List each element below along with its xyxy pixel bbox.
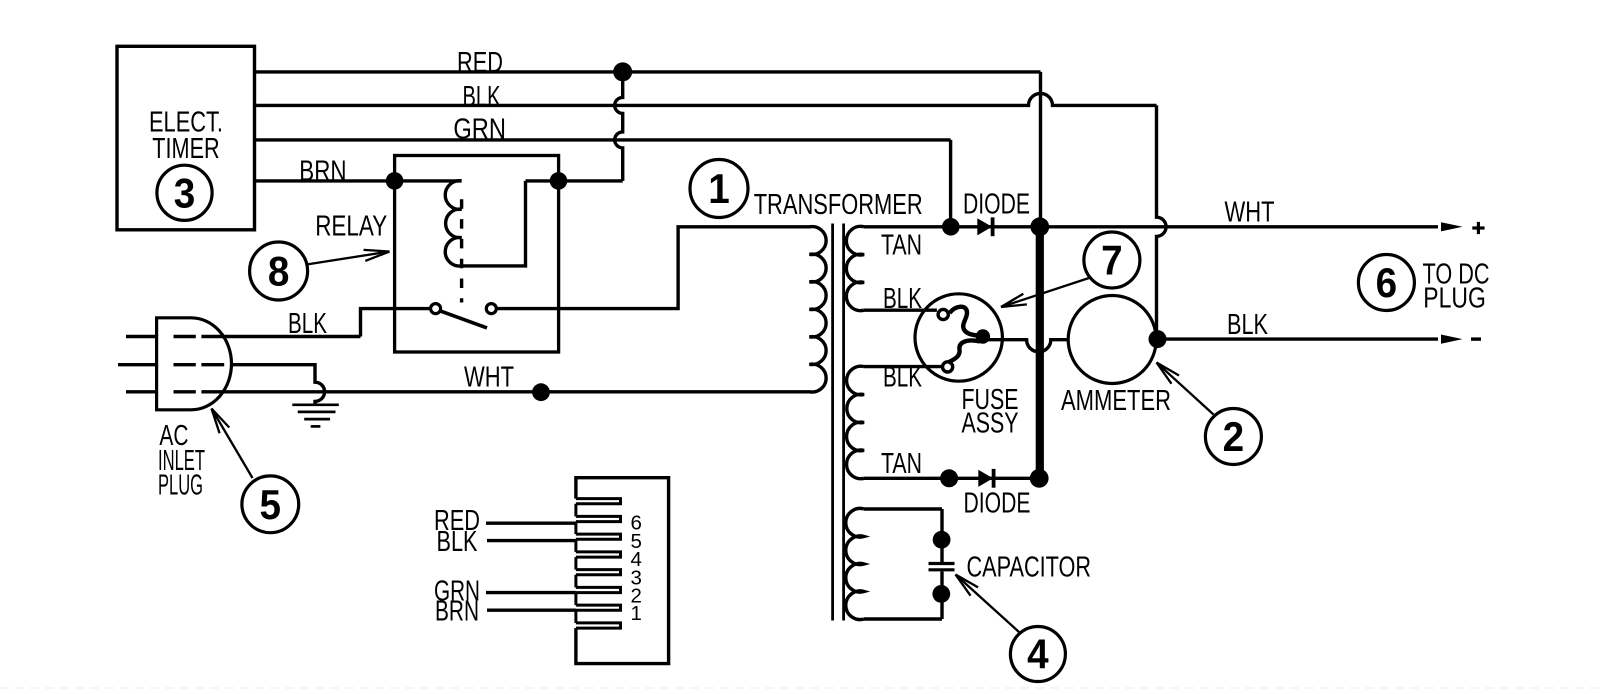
svg-text:TAN: TAN xyxy=(881,448,922,480)
svg-text:BLK: BLK xyxy=(437,526,478,558)
svg-text:PLUG: PLUG xyxy=(158,470,203,502)
svg-text:BLK: BLK xyxy=(288,308,327,340)
svg-text:CAPACITOR: CAPACITOR xyxy=(967,552,1092,584)
svg-text:8: 8 xyxy=(268,248,290,295)
svg-text:ASSY: ASSY xyxy=(962,408,1019,440)
svg-text:6: 6 xyxy=(1376,259,1398,306)
svg-text:TIMER: TIMER xyxy=(152,133,219,165)
svg-text:DIODE: DIODE xyxy=(964,488,1031,520)
svg-text:BLK: BLK xyxy=(1227,309,1268,341)
svg-text:1: 1 xyxy=(631,602,642,625)
svg-text:WHT: WHT xyxy=(464,362,514,394)
svg-text:BRN: BRN xyxy=(435,596,479,628)
svg-text:4: 4 xyxy=(1027,631,1049,678)
svg-text:GRN: GRN xyxy=(453,114,506,146)
svg-text:BRN: BRN xyxy=(299,155,346,187)
svg-text:1: 1 xyxy=(708,165,730,212)
svg-text:AMMETER: AMMETER xyxy=(1061,385,1171,417)
svg-text:PLUG: PLUG xyxy=(1423,283,1486,315)
svg-text:3: 3 xyxy=(174,169,196,216)
svg-text:TAN: TAN xyxy=(881,229,922,261)
svg-text:WHT: WHT xyxy=(1225,197,1275,229)
svg-text:2: 2 xyxy=(1223,413,1245,460)
svg-text:RELAY: RELAY xyxy=(315,211,387,243)
svg-text:7: 7 xyxy=(1101,237,1123,284)
svg-text:DIODE: DIODE xyxy=(963,189,1030,221)
svg-text:BLK: BLK xyxy=(463,81,501,113)
svg-text:5: 5 xyxy=(260,481,282,528)
svg-text:RED: RED xyxy=(457,47,503,79)
svg-text:TRANSFORMER: TRANSFORMER xyxy=(754,189,923,221)
